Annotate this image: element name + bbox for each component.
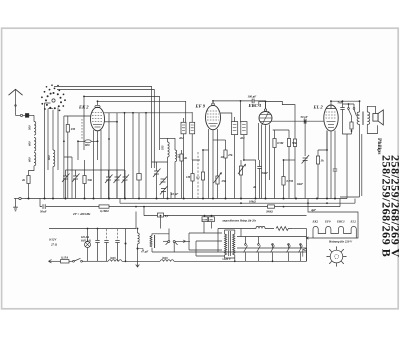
output transformer core <box>363 112 364 126</box>
mains switch contact B <box>173 241 177 253</box>
coupling capacitor <box>23 114 34 118</box>
trimmer T2 <box>72 174 80 183</box>
voltage selector contact 3 <box>271 244 275 262</box>
filament chain diagram <box>306 226 356 239</box>
wire plate to EL2 grid line <box>271 120 324 122</box>
svg-text:ZF = 468 kHz: ZF = 468 kHz <box>73 212 91 216</box>
wire EK2 plate line to IF1 <box>98 101 186 122</box>
electrolytic 47uF <box>138 249 144 251</box>
wire trimmer drops <box>66 170 76 199</box>
plug arrowhead <box>49 260 52 263</box>
svg-text:0,1: 0,1 <box>165 214 169 218</box>
trimmer T4 <box>114 170 122 199</box>
capacitor 5nF feedback <box>340 101 344 113</box>
resistor block 1000 below rail C <box>202 217 208 222</box>
svg-text:50nF: 50nF <box>40 209 47 213</box>
ground symbol <box>13 199 18 211</box>
wire resistor to ground bus <box>28 184 30 199</box>
volume potentiometer <box>238 160 246 199</box>
svg-text:0,1MΩ: 0,1MΩ <box>100 209 109 213</box>
oscillator coil L5 <box>168 138 170 162</box>
resistor block 390 below rail C <box>209 217 215 222</box>
decoupling rail C <box>144 207 307 216</box>
antenna coil L3 <box>34 153 36 166</box>
junction dots rails <box>63 96 360 263</box>
svg-text:EF9: EF9 <box>324 220 331 224</box>
wire EL2 pins <box>327 131 335 199</box>
speaker <box>373 110 383 125</box>
svg-text:1000: 1000 <box>202 219 208 222</box>
wire coil top link <box>160 138 175 140</box>
padder trimmer T6 <box>153 162 161 199</box>
wire EL2 plate to transformer <box>331 101 360 105</box>
svg-text:27 Ω: 27 Ω <box>50 243 58 247</box>
svg-text:≈220 V: ≈220 V <box>222 257 232 261</box>
tube socket diagram <box>326 246 346 266</box>
dial lamp <box>85 228 91 262</box>
svg-text:10 pF: 10 pF <box>171 192 178 196</box>
voltage selector contact 2 <box>257 244 261 262</box>
choke coil <box>137 229 140 262</box>
svg-text:EK2: EK2 <box>312 220 319 224</box>
resistor 47k rail <box>99 205 109 208</box>
value labels small <box>21 95 356 262</box>
resistor 50k diode load <box>273 130 291 199</box>
tube EBC3 top cap <box>264 109 266 111</box>
wire HT from rectifier <box>361 134 363 196</box>
wire EK2 pin 3 <box>100 130 102 199</box>
svg-text:1M: 1M <box>186 175 191 179</box>
svg-text:47k: 47k <box>227 153 233 157</box>
voltage selector contact 5 <box>299 244 303 262</box>
resistor 47k screen <box>213 140 227 199</box>
junction mains mid <box>125 243 127 245</box>
wire band link <box>66 169 126 171</box>
antenna <box>9 89 23 115</box>
svg-text:angeschlossene Heizsp. für 20x: angeschlossene Heizsp. für 20x <box>223 220 257 223</box>
svg-text:EL 2: EL 2 <box>313 105 324 110</box>
tube EF9 top cap <box>212 101 215 106</box>
svg-text:4k: 4k <box>183 156 188 160</box>
trimmer T5 <box>122 170 130 199</box>
voltage selector contact 4 <box>287 244 291 262</box>
svg-text:EBC3: EBC3 <box>336 220 345 224</box>
svg-text:50 pF: 50 pF <box>301 115 308 119</box>
wire IF1 plate link <box>104 112 192 114</box>
svg-text:600: 600 <box>47 155 51 160</box>
svg-text:258/259/268/269 V: 258/259/268/269 V <box>388 155 400 258</box>
svg-text:4μF: 4μF <box>310 208 316 212</box>
potentiometer 25k <box>214 172 222 199</box>
svg-text:500: 500 <box>28 125 32 130</box>
terminal flag <box>303 249 307 257</box>
bottom bus segment b <box>122 260 160 262</box>
wire routing nest left <box>189 222 225 256</box>
wire EF9 pin 2 <box>212 130 214 199</box>
wire EBC3 plate top <box>265 101 267 108</box>
wire osc branch <box>83 96 85 150</box>
tube EBC3 envelope <box>259 111 272 125</box>
wire AVC line 1 <box>54 86 152 168</box>
svg-text:50nF: 50nF <box>262 171 269 175</box>
dashed linkage tuning <box>197 152 199 198</box>
svg-text:0.5M: 0.5M <box>277 141 284 145</box>
voltage selector contact 1 <box>244 244 248 262</box>
wire L4 down <box>52 167 54 199</box>
wire down to antenna coils <box>33 115 35 121</box>
wire power box outline <box>152 251 307 253</box>
svg-text:EF 9: EF 9 <box>195 104 206 109</box>
resistor 390 on rail B <box>268 205 275 208</box>
svg-text:2M: 2M <box>70 127 76 131</box>
capacitor AF coupling <box>257 160 261 199</box>
wire antenna to coupling cap <box>16 114 21 116</box>
dropper resistor mains <box>150 234 169 252</box>
svg-text:10nF: 10nF <box>297 182 304 186</box>
output transformer primary <box>357 101 359 124</box>
wire IF1 connections <box>184 112 201 199</box>
svg-text:600: 600 <box>28 157 32 162</box>
antenna coil L1 <box>34 122 36 136</box>
svg-text:10kΩ: 10kΩ <box>249 200 257 204</box>
svg-text:Philips: Philips <box>376 138 382 155</box>
svg-text:0,15A: 0,15A <box>61 255 68 259</box>
resistor 1M <box>191 160 194 199</box>
wire coil chain to resistor <box>29 166 35 176</box>
wire EF9 pin 3 <box>217 129 219 172</box>
svg-text:(300): (300) <box>162 257 168 260</box>
wire EK2 side pin <box>104 121 117 123</box>
ground arrow below choke <box>136 261 140 267</box>
wire selector drop <box>306 229 308 262</box>
wire mains mid drop <box>125 229 127 262</box>
wire EF9 grid line to EBC3 <box>213 101 266 109</box>
svg-text:464: 464 <box>239 136 245 140</box>
svg-text:390Ω: 390Ω <box>265 209 274 213</box>
wire osc vertical b <box>138 113 140 160</box>
resistor 0.7M grid EL2 <box>282 160 295 199</box>
svg-text:EBC 3: EBC 3 <box>248 103 262 108</box>
svg-text:100 pF: 100 pF <box>248 95 257 99</box>
tone switch S1 <box>343 104 352 120</box>
svg-text:(200): (200) <box>110 257 116 260</box>
switch wiper arrow <box>175 240 190 243</box>
svg-text:390: 390 <box>208 219 213 222</box>
svg-text:5nF: 5nF <box>338 101 343 105</box>
earth terminal <box>14 197 25 199</box>
resistor anode load <box>293 139 296 147</box>
antenna stem tick <box>15 105 17 107</box>
wire secondary to speaker <box>367 106 375 113</box>
svg-text:0,1: 0,1 <box>196 176 200 180</box>
svg-text:47 μF: 47 μF <box>140 250 148 254</box>
wire feedback down <box>346 134 348 199</box>
wire bias step <box>64 157 72 199</box>
fuse <box>61 260 70 263</box>
resistor 0,1 <box>201 150 208 199</box>
wire EK2 pin 1 <box>93 130 95 199</box>
coil L4 <box>53 150 55 167</box>
wire osc vertical a <box>145 113 147 199</box>
wire rail A to filament chain <box>354 199 356 204</box>
wire anode load down <box>294 147 296 199</box>
wire primary bottom down <box>340 124 360 197</box>
wire IF2 connections <box>235 117 244 199</box>
switch linkage dashed 1 <box>104 229 108 261</box>
IF transformer 1 <box>181 122 195 134</box>
tuning gang C1 (speckled circle) <box>41 84 66 111</box>
mains switch contact A <box>163 229 170 245</box>
oscillator coil L6 <box>175 138 177 170</box>
wire EK2 grid-cap line <box>84 95 160 97</box>
resistor 0.5M <box>273 130 276 199</box>
svg-text:EK 2: EK 2 <box>78 105 89 110</box>
capacitor 100pF <box>252 99 254 104</box>
mains plug lead <box>49 260 61 262</box>
resistor 50k left <box>83 160 86 199</box>
svg-text:0.5: 0.5 <box>177 154 181 158</box>
wire feed line left <box>49 212 136 229</box>
wire tap line upper <box>237 236 307 238</box>
trimmer grid <box>302 155 310 199</box>
wire EK2 anode feed <box>124 113 126 199</box>
wire EK2 pin 2 <box>97 131 99 160</box>
resistor 50k mid <box>137 160 141 199</box>
wire selector stubs <box>246 237 301 249</box>
svg-text:464: 464 <box>178 136 184 140</box>
capacitor EL2 cathode <box>333 165 337 199</box>
autotransformer winding B <box>233 230 235 258</box>
antenna terminal <box>20 114 22 116</box>
svg-text:50k: 50k <box>292 141 297 145</box>
tone switch S2 <box>349 104 357 116</box>
mains switch on bus <box>69 258 98 262</box>
autotransformer winding A <box>225 230 227 258</box>
wire EK2 screen feed <box>116 113 118 199</box>
junction dots ground bus <box>28 198 337 200</box>
wire subrail to filament <box>308 199 358 239</box>
coil under EK2 <box>78 140 98 143</box>
svg-text:25k: 25k <box>221 179 227 183</box>
antenna coil L2 <box>34 138 36 152</box>
switch linkage dashed 2 <box>115 229 119 261</box>
svg-text:0/12V: 0/12V <box>49 238 57 242</box>
capacitor 0.1uF block <box>158 213 164 229</box>
autotransformer core <box>229 231 231 256</box>
wire tuning verticals <box>48 109 53 170</box>
resistor tone network <box>343 113 354 134</box>
svg-text:600: 600 <box>28 141 32 146</box>
ground bus <box>25 198 347 200</box>
line resistor filter <box>276 227 292 231</box>
tube EK2 envelope <box>91 107 105 131</box>
tube EL2 envelope <box>324 105 338 131</box>
wire mains upper line <box>218 229 254 237</box>
svg-text:800: 800 <box>85 143 90 147</box>
svg-text:0.7M: 0.7M <box>287 179 294 183</box>
svg-text:3k: 3k <box>320 159 325 163</box>
HT rail B <box>40 199 340 207</box>
capacitor 50nF rail <box>43 204 45 209</box>
wire mid link <box>77 141 79 160</box>
wire rail to power unit <box>339 199 341 207</box>
wire IF2 secondary to diode <box>244 160 256 199</box>
wire osc links <box>152 162 176 199</box>
bottom bus segment c <box>174 252 307 261</box>
capacitor 50pF <box>304 119 306 124</box>
svg-text:2k: 2k <box>21 178 26 182</box>
tube EF9 envelope <box>206 105 221 129</box>
resistor 2k <box>27 176 30 184</box>
dashed linkage EK2 <box>81 119 83 140</box>
line coil filter <box>256 226 265 228</box>
bus cable marker 200 <box>108 260 122 262</box>
padder trimmer T8 <box>160 186 168 199</box>
wire EF9 plate <box>221 113 232 122</box>
svg-text:50k: 50k <box>88 178 93 182</box>
svg-text:Heizung für 220 V: Heizung für 220 V <box>328 240 353 244</box>
decoupling rail A <box>120 199 355 204</box>
wire transformer box <box>218 229 235 262</box>
wire second antenna branch <box>45 103 51 199</box>
resistor 2M <box>66 116 69 199</box>
IF transformer 2 <box>232 122 248 135</box>
svg-text:555: 555 <box>161 145 165 150</box>
resistor 3k cathode EL2 <box>316 131 327 199</box>
wire AVC line 2 <box>57 90 154 169</box>
wire EK2 grid coupling <box>64 116 91 199</box>
svg-text:8/(0,3A): 8/(0,3A) <box>81 239 91 243</box>
wire EBC3 top bracket <box>259 101 295 139</box>
svg-text:4k: 4k <box>252 185 257 189</box>
wire screen feed mid <box>132 113 134 199</box>
junction grid line <box>304 120 306 122</box>
trimmer T1 <box>62 174 70 183</box>
wire tap line lower <box>237 247 307 249</box>
tube EK2 top cap <box>95 101 100 107</box>
output transformer secondary <box>367 112 369 124</box>
wire screen vertical <box>108 113 110 199</box>
wire grid line branch down <box>159 96 161 150</box>
wire EF9 pin 1 <box>208 129 210 199</box>
bottom bus segment a <box>98 260 109 262</box>
wire EBC3 pins <box>259 123 270 199</box>
capacitor mains left <box>95 229 99 262</box>
resistor 4k <box>180 150 183 199</box>
padder trimmer T7 <box>160 177 168 186</box>
trimmer T3 <box>105 170 113 199</box>
svg-text:40: 40 <box>220 155 225 159</box>
wire grid line drop <box>304 121 306 156</box>
svg-text:EL2: EL2 <box>350 220 357 224</box>
bus cable marker 300 <box>160 260 174 262</box>
